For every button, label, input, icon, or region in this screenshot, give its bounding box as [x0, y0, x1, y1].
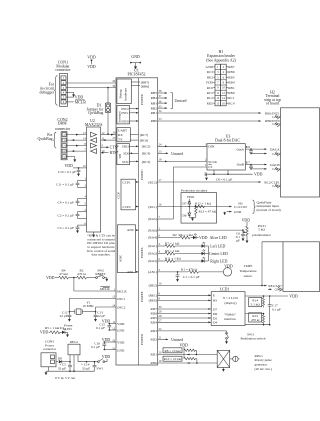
connector H1 expansion header — [206, 50, 237, 106]
svg-text:RD2: RD2 — [207, 101, 214, 105]
capacitor C13 22 pF — [94, 310, 106, 321]
svg-text:(20 inc./rev.): (20 inc./rev.) — [255, 367, 272, 371]
svg-text:AN0: AN0 — [127, 228, 134, 232]
pin GND (12) — [112, 326, 125, 332]
svg-text:D7: D7 — [182, 202, 186, 206]
svg-text:0.1 µF: 0.1 µF — [91, 345, 100, 349]
svg-text:DACB: DACB — [270, 163, 280, 167]
svg-text:CCP: CCP — [117, 192, 121, 199]
LED D2 alive — [191, 233, 227, 239]
wire RD7 to LCD D7 — [150, 305, 211, 311]
wire CON1 pin3 to U1 RB6 (pin 39) — [66, 84, 116, 89]
svg-text:RC2: RC2 — [207, 96, 214, 100]
svg-text:RD4: RD4 — [150, 321, 157, 325]
svg-text:VDD: VDD — [75, 96, 84, 100]
H1 row1 GND RB7 — [206, 65, 235, 69]
svg-text:PORTC: PORTC — [140, 169, 144, 180]
pin RC4 SDI unused — [158, 150, 183, 156]
wire U1 TX pin25 to U2 pin11 — [101, 136, 116, 141]
connector H2 terminal strip — [264, 90, 319, 197]
svg-text:hardware: hardware — [123, 87, 127, 100]
svg-text:potentiometer: potentiometer — [252, 233, 272, 237]
wire RE1 to LCD E — [149, 292, 212, 298]
wire DAC OutA to H2 DACA — [245, 147, 280, 151]
capacitor C1 = 0.1uF — [176, 272, 200, 282]
resistor R13 = 47 kOhm — [195, 206, 217, 218]
svg-text:Pushbutton switch: Pushbutton switch — [241, 337, 266, 341]
diode D8 power input — [58, 357, 70, 364]
svg-text:CTS*: CTS* — [110, 146, 119, 150]
pin RA4 alive LED — [148, 234, 180, 240]
ground rail power supply — [45, 370, 95, 381]
svg-text:C9: C9 — [246, 145, 250, 149]
resistor R14 5.1k — [249, 296, 265, 308]
svg-text:C7: C7 — [246, 160, 250, 164]
resistor R11 right LED — [165, 257, 202, 263]
svg-text:RC1: RC1 — [228, 96, 235, 100]
resistor R9 center LED — [165, 249, 202, 255]
svg-text:PIC18F452: PIC18F452 — [128, 73, 146, 77]
pin VDD (32) — [112, 338, 125, 344]
capacitor C3 on U2 pin2 — [58, 208, 87, 219]
svg-text:CCP2: CCP2 — [123, 205, 131, 209]
wire U2 pin12 R1OUT to U1 RX pin26 — [101, 130, 116, 135]
node H3 C1/CCP2 — [234, 201, 247, 209]
pin AN1 temperature input — [148, 268, 188, 274]
ground at H2 row4 — [272, 122, 280, 127]
svg-text:0.1 µF: 0.1 µF — [96, 326, 105, 330]
pin RB2 unused — [151, 104, 168, 110]
svg-text:RB0: RB0 — [228, 91, 235, 95]
svg-text:R5 = 1 kΩ: R5 = 1 kΩ — [45, 326, 60, 330]
ground at H2 row2 — [272, 115, 280, 119]
wire CON2 pin7 to U2 pin8 — [66, 142, 86, 147]
ground wire at H2 below DACA — [251, 152, 281, 156]
svg-text:Center LED: Center LED — [209, 252, 228, 256]
brace: For QwikBug — [37, 132, 56, 148]
RPG1 rotary pulse generator — [217, 350, 272, 372]
svg-text:CCP1: CCP1 — [123, 181, 131, 185]
svg-text:R13 = 47 kΩ: R13 = 47 kΩ — [199, 210, 217, 214]
svg-text:5 kΩ: 5 kΩ — [258, 228, 265, 232]
svg-text:VDD: VDD — [199, 236, 208, 240]
svg-text:OutB: OutB — [237, 163, 245, 167]
svg-text:VDD: VDD — [46, 276, 55, 280]
svg-text:QwikBug: QwikBug — [88, 111, 103, 115]
resistor R4 47k (MCLR pullup) — [46, 268, 75, 280]
wire LED common to VDD — [208, 246, 210, 261]
op-amp U1 PIC18F452 — [116, 69, 158, 365]
svg-text:(bottom of board): (bottom of board) — [257, 208, 281, 212]
svg-text:C11 = 0.1 µF: C11 = 0.1 µF — [56, 182, 74, 186]
svg-text:GND: GND — [206, 65, 214, 69]
buffer R1 in U2 — [91, 132, 97, 137]
wire DAC OutB to H2 DACB — [245, 163, 280, 167]
svg-text:470 Ω: 470 Ω — [77, 272, 86, 276]
LED D1 power — [60, 323, 74, 337]
svg-text:(RC5): (RC5) — [142, 145, 150, 149]
capacitor C16 0.1uF (U1 bypass) — [91, 338, 116, 350]
svg-text:ADC: ADC — [119, 254, 123, 262]
svg-text:R8 = 10 kΩ: R8 = 10 kΩ — [164, 349, 180, 353]
svg-text:(RA1): (RA1) — [148, 244, 157, 248]
svg-text:VDD: VDD — [40, 331, 49, 335]
svg-text:C4 = 0.1 µF: C4 = 0.1 µF — [58, 200, 75, 204]
svg-text:RB1: RB1 — [151, 111, 158, 115]
svg-text:(RE2): (RE2) — [149, 284, 157, 288]
svg-text:RB2: RB2 — [151, 106, 158, 110]
svg-text:VDD: VDD — [289, 295, 298, 299]
svg-text:RD6: RD6 — [150, 312, 157, 316]
svg-text:VDD: VDD — [65, 164, 74, 168]
connector CON3 power — [41, 340, 58, 372]
resistor R6 alive LED — [173, 233, 194, 239]
buffer T2 in U2 — [91, 149, 97, 154]
resistor R15 470 — [245, 313, 265, 325]
svg-text:10 MHz: 10 MHz — [82, 304, 94, 308]
H1 row6 RC5 RB0 — [207, 91, 235, 95]
svg-text:SCK: SCK — [122, 160, 129, 164]
pin RC5 SDO to DAC DIN — [158, 143, 207, 148]
block UART in U1 — [117, 128, 148, 143]
ground at CON1 pin4 — [66, 92, 75, 97]
transistor-style temperature sensor TMP5 — [223, 264, 257, 278]
svg-text:Debug: Debug — [118, 89, 122, 98]
pin GND (31) — [112, 346, 125, 352]
pin RA5 to DAC CS* — [148, 167, 207, 221]
capacitor C7 — [246, 160, 253, 169]
svg-text:VDD: VDD — [102, 355, 111, 359]
svg-text:RB7: RB7 — [228, 65, 235, 69]
svg-text:OutA: OutA — [236, 147, 244, 151]
svg-text:GND: GND — [234, 210, 242, 214]
svg-text:RD3: RD3 — [150, 329, 157, 333]
wire RB1/INT1 to H2 — [151, 109, 262, 115]
svg-text:SPI: SPI — [118, 153, 122, 159]
H1 row4 VDD RB4 — [206, 81, 235, 85]
capacitor C12 22 pF — [60, 310, 72, 321]
jumper D1 for QwikBug — [86, 88, 110, 135]
svg-text:D6: D6 — [213, 312, 217, 316]
resistor R7 left LED — [165, 242, 202, 248]
svg-text:RC0: RC0 — [207, 86, 214, 90]
capacitor C8 = 0.1uF — [205, 172, 233, 181]
pin RC3 SCK to DAC SCLK — [158, 158, 207, 163]
resistor R5 1k power LED — [40, 326, 62, 334]
wire RD4 to LCD D4 — [150, 319, 211, 325]
svg-text:SDO: SDO — [122, 145, 129, 149]
svg-text:GND: GND — [275, 288, 283, 292]
svg-text:OSC1: OSC1 — [117, 297, 126, 301]
svg-text:C3 = 0.1 µF: C3 = 0.1 µF — [58, 226, 75, 230]
svg-text:GND: GND — [131, 55, 140, 59]
svg-text:C1 = 0.1 µF: C1 = 0.1 µF — [183, 275, 200, 279]
node RTS* to U2 pin10 — [101, 149, 119, 155]
ground GND (top, U1 supply) — [130, 55, 141, 69]
wire LCD VDD rail — [245, 295, 298, 299]
resistor R12 = 1 kOhm — [195, 202, 212, 208]
buffer R2 in U2 — [91, 143, 97, 148]
svg-text:8 × 2 LCD: 8 × 2 LCD — [223, 296, 238, 300]
LED D3 left — [202, 242, 226, 248]
svg-text:470 Ω: 470 Ω — [251, 318, 260, 322]
svg-text:QwikBug: QwikBug — [37, 137, 52, 141]
svg-text:VDD: VDD — [117, 322, 125, 326]
svg-text:R10 = 10 kΩ: R10 = 10 kΩ — [164, 357, 182, 361]
wire MCLR to U1 pin1 — [74, 278, 116, 292]
svg-text:VDD: VDD — [187, 195, 195, 199]
svg-text:Alive LED: Alive LED — [210, 236, 227, 240]
H1 row7 RC2 RC1 — [207, 96, 235, 100]
voltage regulator REG1 — [68, 340, 95, 371]
svg-text:22 pF: 22 pF — [60, 314, 68, 318]
H1 row5 RC0 RB1 — [207, 86, 235, 90]
display LCD1 8x2 — [211, 287, 245, 325]
svg-text:interface: interface — [224, 317, 236, 321]
node VDD (top power label pair) — [87, 56, 96, 70]
svg-text:RC5: RC5 — [207, 91, 214, 95]
capacitor C5 33uF — [58, 362, 72, 372]
pushbutton SW3 — [225, 331, 266, 344]
capacitor C2 on U2 pin6 — [58, 221, 87, 233]
resistor R8 10k pullup — [163, 343, 197, 358]
svg-text:µF: µF — [236, 238, 240, 242]
svg-text:RB4: RB4 — [228, 81, 235, 85]
H1 row2 RC3 RB6 — [207, 70, 235, 74]
svg-text:R12 = 1 kΩ: R12 = 1 kΩ — [195, 202, 211, 206]
svg-text:OSC2: OSC2 — [117, 306, 126, 310]
svg-text:RC3: RC3 — [207, 70, 214, 74]
svg-text:(RA0): (RA0) — [148, 228, 157, 232]
LED D5 right — [202, 257, 228, 264]
op-amp U2 MAX232A — [85, 119, 103, 232]
svg-text:(RE0): (RE0) — [149, 299, 157, 303]
svg-text:47 kΩ: 47 kΩ — [59, 272, 68, 276]
svg-text:VDD: VDD — [102, 338, 111, 342]
svg-text:GND: GND — [272, 122, 280, 126]
svg-text:PORTE: PORTE — [140, 291, 144, 302]
connector bottom-right strip — [268, 242, 319, 292]
H1 row3 RE2 RB5 — [207, 75, 235, 79]
svg-text:0.1 µF: 0.1 µF — [272, 308, 281, 312]
svg-text:VDD: VDD — [87, 56, 96, 60]
wire DAC VDD rail with C8 — [207, 170, 263, 177]
pin RB5 unused — [151, 89, 168, 95]
ground wire at H2 below DACB — [251, 167, 281, 171]
wire RD0 to RPG — [150, 359, 217, 365]
svg-text:"Nibble": "Nibble" — [224, 312, 237, 316]
svg-text:Protection circuitry: Protection circuitry — [181, 188, 208, 192]
capacitor C11 on U2 pin1/3 — [56, 177, 87, 188]
wire RD3 to pushbutton — [150, 327, 226, 333]
potentiometer POT1 — [242, 218, 272, 243]
svg-text:PORTA: PORTA — [140, 247, 144, 258]
svg-text:RB6: RB6 — [228, 70, 235, 74]
pin VDD (11) — [112, 320, 124, 326]
svg-text:LCD1: LCD1 — [220, 287, 230, 291]
ground at bottom strip GND — [268, 287, 283, 292]
resistor R1 = 470 temperature filter — [177, 267, 224, 273]
capacitor C4 on U2 pin4/5 — [58, 195, 87, 206]
wire CON2 pin2 to U2 pin13 — [66, 131, 86, 136]
svg-text:Unused: Unused — [171, 152, 183, 156]
svg-text:GND: GND — [272, 184, 280, 188]
svg-text:INT1: INT1 — [121, 111, 129, 115]
LED D4 center — [202, 249, 229, 255]
svg-text:GND: GND — [117, 349, 125, 353]
chip U3 dual 8-bit DAC — [205, 134, 248, 170]
wire RE2 branch up to bottom strip corner — [262, 242, 283, 286]
capacitor C17 0.1uF — [268, 296, 281, 325]
svg-text:(See Appendix A2): (See Appendix A2) — [206, 58, 237, 62]
svg-text:TMP5: TMP5 — [244, 264, 253, 268]
capacitor C14 33uF — [81, 361, 96, 371]
wire RD6 to LCD D6 — [150, 310, 211, 316]
brace: For in-circuit debugger — [40, 76, 58, 106]
node CTS* from U2 pin9 — [101, 143, 119, 149]
diode D6 — [182, 207, 190, 218]
wire U2 pin14 to CON2 pin3 — [66, 136, 86, 141]
pin RA3 right LED — [148, 257, 165, 263]
svg-text:connector: connector — [55, 68, 71, 72]
resistor R2 470 (reset) — [74, 268, 96, 279]
svg-text:D8: D8 — [58, 357, 62, 361]
svg-text:(RA2): (RA2) — [148, 252, 157, 256]
wire RC1/CCP2 to protection circuitry — [158, 203, 232, 208]
svg-text:(RA4): (RA4) — [148, 236, 157, 240]
svg-text:RD1: RD1 — [150, 353, 157, 357]
svg-text:Right LED: Right LED — [210, 259, 227, 263]
pin RD2 unused — [150, 336, 183, 342]
svg-text:C1/CCP2: C1/CCP2 — [234, 205, 247, 209]
svg-text:(RB6): (RB6) — [141, 84, 149, 88]
svg-text:C2 = 0.1 µF: C2 = 0.1 µF — [58, 213, 75, 217]
crystal Y1 10 MHz — [69, 298, 116, 315]
svg-text:RD0: RD0 — [150, 361, 157, 365]
wire RE2/AN7 — [149, 282, 267, 288]
svg-text:RE2: RE2 — [207, 75, 213, 79]
svg-text:LED: LED — [65, 327, 72, 331]
svg-text:MAX232A: MAX232A — [85, 123, 103, 127]
svg-text:sensor: sensor — [244, 274, 254, 278]
svg-text:22 pF: 22 pF — [97, 314, 105, 318]
svg-text:debugger: debugger — [40, 90, 55, 94]
wire CON1 pin2 to U1 RB7 (pin 40) — [66, 79, 116, 83]
block ADC in U1 — [118, 225, 139, 274]
svg-text:C8 = 0.1 µF: C8 = 0.1 µF — [216, 177, 233, 181]
svg-text:REG1: REG1 — [70, 340, 79, 344]
pin RA1 left LED — [148, 242, 165, 248]
svg-text:E: E — [213, 294, 215, 298]
svg-text:D7: D7 — [213, 307, 217, 311]
svg-text:Left LED: Left LED — [210, 244, 225, 248]
svg-text:(RA3): (RA3) — [148, 259, 157, 263]
svg-text:CS: CS — [208, 165, 212, 169]
svg-text:Unused: Unused — [175, 99, 187, 103]
ground at U2 pin15 — [92, 232, 95, 237]
svg-text:(AN1): (AN1) — [148, 270, 157, 274]
svg-text:(RC7): (RC7) — [140, 133, 148, 137]
svg-text:data transfers.: data transfers. — [91, 253, 110, 257]
ground wire H3 GND — [223, 210, 241, 215]
svg-text:RB5: RB5 — [151, 91, 158, 95]
svg-text:(RC6): (RC6) — [140, 139, 148, 143]
svg-text:(RC2): (RC2) — [148, 180, 156, 184]
svg-text:GND: GND — [117, 329, 125, 333]
svg-text:SCLK: SCLK — [208, 160, 217, 164]
svg-text:DB9F: DB9F — [58, 122, 68, 126]
connector CON1 (modular, for in-circuit debugger) — [55, 61, 71, 107]
svg-text:5.1 kΩ: 5.1 kΩ — [251, 303, 261, 307]
svg-text:C10 = 0.1 µF: C10 = 0.1 µF — [58, 170, 76, 174]
svg-text:RX: RX — [118, 133, 123, 137]
svg-text:VDD: VDD — [206, 81, 214, 85]
svg-text:Temperature: Temperature — [239, 269, 257, 273]
box: protection circuitry — [181, 188, 217, 223]
bracket Unused RB5-RB2 — [171, 93, 187, 109]
svg-text:UART: UART — [118, 128, 128, 132]
svg-text:Unused: Unused — [171, 338, 183, 342]
svg-text:PORTD: PORTD — [140, 334, 144, 345]
svg-text:VDD: VDD — [87, 65, 96, 69]
svg-text:INT0: INT0 — [121, 119, 129, 123]
svg-text:D2: D2 — [173, 233, 177, 237]
note: RTS CTS flow control — [87, 234, 116, 257]
pin RB3 unused — [151, 99, 168, 105]
svg-text:SDI: SDI — [123, 152, 129, 156]
node VDD at CON1 pin5 — [66, 96, 83, 100]
svg-text:(RA5): (RA5) — [148, 217, 157, 221]
block SPI in U1 — [117, 144, 150, 165]
wire RD1 to RPG — [150, 351, 217, 357]
connector CON2 DB9F (for QwikBug) — [55, 118, 71, 160]
svg-text:connector: connector — [55, 127, 71, 131]
svg-text:D4: D4 — [213, 321, 217, 325]
switch SW2 RESET — [95, 268, 108, 281]
svg-text:(RE1): (RE1) — [149, 294, 157, 298]
pin OSC2 (14) — [112, 303, 125, 309]
buffer T1 in U2 — [91, 138, 97, 143]
node VDD in protection box — [187, 195, 195, 201]
svg-text:RC4: RC4 — [228, 101, 235, 105]
svg-text:DACA: DACA — [270, 147, 280, 151]
svg-text:(display): (display) — [224, 301, 236, 305]
svg-text:RS: RS — [213, 299, 217, 303]
svg-text:RESET: RESET — [95, 272, 106, 276]
svg-text:(RC1): (RC1) — [148, 205, 156, 209]
wire VDD to U2 pin16 with C10 — [58, 164, 87, 177]
brace QwikFlash instrument input — [253, 200, 281, 214]
svg-text:(RC3): (RC3) — [142, 160, 150, 164]
svg-text:(RC4): (RC4) — [142, 152, 150, 156]
svg-text:RB3: RB3 — [151, 101, 158, 105]
svg-text:TX: TX — [118, 138, 123, 142]
block interrupts INT2 INT1 INT0 in U1 — [117, 106, 139, 124]
capacitor C15 0.1uF (U1 bypass) — [96, 319, 116, 330]
pin MCLR (pin 1) — [103, 287, 127, 293]
wire RD5 to LCD D5 — [150, 314, 211, 320]
svg-text:33 µF: 33 µF — [58, 367, 66, 371]
pin RB4 unused — [151, 94, 168, 100]
resistor R10 10k pullup — [163, 356, 198, 364]
svg-text:MCLR: MCLR — [75, 100, 86, 104]
ground at CON2 pin5 — [66, 157, 76, 163]
wire RE0 to LCD RS — [149, 297, 212, 303]
svg-text:VDD: VDD — [254, 173, 263, 177]
svg-text:33 µF: 33 µF — [82, 367, 90, 371]
svg-text:RD7: RD7 — [150, 307, 157, 311]
pin OSC1 (13) — [112, 295, 125, 301]
